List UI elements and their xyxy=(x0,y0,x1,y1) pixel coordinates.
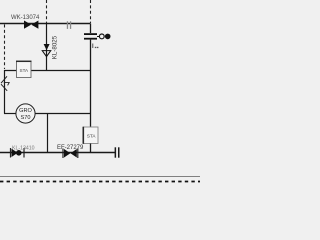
wire: right vertical line x=90 top segment xyxy=(90,24,92,34)
valve EF-27279 xyxy=(63,149,78,159)
indicator circles beside capacitor xyxy=(97,34,110,40)
wire: second horizontal line y=70 xyxy=(4,70,91,72)
wire: third horizontal line y=113 xyxy=(4,113,16,115)
svg-text:EF-27279: EF-27279 xyxy=(57,145,84,151)
boundary: solid gray line xyxy=(0,176,200,178)
valve X symbol on left line xyxy=(1,76,9,91)
wire: dashed vertical drop at x=90 (top) xyxy=(90,0,92,23)
wire: top main header line xyxy=(0,23,91,25)
wire: right vertical line x=90 bottom segment xyxy=(90,144,92,153)
svg-text:KL-8025: KL-8025 xyxy=(52,35,59,59)
wire: drop from y=113 to y=152 at x=47 xyxy=(47,114,49,153)
wire: right vertical line x=90 mid segment xyxy=(90,40,92,127)
svg-text:KL-13410: KL-13410 xyxy=(12,145,35,151)
svg-text:STA: STA xyxy=(20,68,30,73)
svg-text:STA: STA xyxy=(87,134,97,139)
instrument circle GRO S70 xyxy=(16,104,35,123)
capacitor/union on top line xyxy=(67,21,71,29)
wire: fourth horizontal line y=152 xyxy=(0,152,115,154)
capacitor plates on right line xyxy=(84,33,97,39)
box STA-2 xyxy=(83,127,98,144)
wire: dashed vertical left at x=4 xyxy=(4,25,6,70)
boundary: dashed black line xyxy=(0,181,200,183)
valve KL-8025 (arrow + funnel) xyxy=(42,44,51,57)
valve KL-13410 xyxy=(11,148,25,158)
wire: left vertical line x=4 (solid) xyxy=(4,70,6,114)
wire: vertical branch at x=46 xyxy=(46,24,48,71)
box STA-1 xyxy=(16,61,32,77)
svg-text:S70: S70 xyxy=(21,115,31,121)
svg-text:GRO: GRO xyxy=(19,108,32,114)
valve WK-13074 (bowtie) xyxy=(24,21,38,29)
wire: dashed vertical drop at x=46 (top) xyxy=(46,0,48,23)
tiny marks below plates xyxy=(93,44,99,49)
capacitor end of line 4 xyxy=(115,147,120,157)
svg-text:WK-13074: WK-13074 xyxy=(11,15,40,21)
